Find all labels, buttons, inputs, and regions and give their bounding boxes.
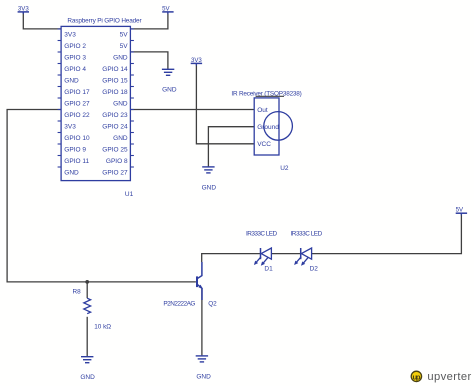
svg-text:GND: GND: [202, 184, 217, 191]
wire net 3V3: power to U2 VCC: [196, 64, 254, 144]
U1 pin GND (left row 13): [58, 167, 79, 177]
svg-text:GPIO 27: GPIO 27: [102, 170, 128, 177]
svg-text:GPIO 10: GPIO 10: [64, 135, 90, 142]
svg-text:5V: 5V: [456, 207, 464, 214]
ground symbol below Q2: [196, 356, 208, 362]
U1 pin GND (right row 7): [113, 98, 134, 108]
svg-text:R8: R8: [73, 289, 82, 296]
power symbol 5V: [162, 5, 173, 14]
wire R8 bottom lead to ground: [86, 317, 88, 357]
U1 pin GPIO 8 (right row 12): [106, 156, 134, 166]
U1 pin GPIO 27 (right row 13): [102, 167, 134, 177]
svg-text:GND: GND: [113, 135, 128, 142]
svg-text:GND: GND: [64, 78, 79, 85]
power symbol 3V3: [18, 5, 30, 14]
svg-text:Q2: Q2: [208, 300, 217, 307]
LED D2 arrowheads: [294, 261, 298, 265]
ground symbol near U2: [202, 167, 214, 173]
U1 pin GND (right row 3): [113, 52, 134, 62]
U1 pin GPIO 9 (left row 11): [58, 144, 87, 154]
svg-text:GND: GND: [64, 170, 79, 177]
svg-text:GPIO 15: GPIO 15: [102, 78, 128, 85]
LED D1 IR333C symbol: [256, 248, 271, 263]
svg-text:GPIO 2: GPIO 2: [64, 43, 86, 50]
junction dot at R8 / base wire: [85, 280, 89, 284]
svg-text:GPIO 3: GPIO 3: [64, 55, 86, 62]
svg-text:GPIO 9: GPIO 9: [64, 147, 86, 154]
wire net BASE: U1 GPIO 22 to Q2 base and R8: [7, 110, 196, 282]
svg-text:3V3: 3V3: [64, 32, 76, 39]
svg-text:Raspberry Pi GPIO Header: Raspberry Pi GPIO Header: [67, 17, 142, 24]
svg-text:GPIO 18: GPIO 18: [102, 89, 128, 96]
svg-text:5V: 5V: [120, 32, 129, 39]
svg-text:GPIO 22: GPIO 22: [64, 112, 90, 119]
upverter logo mark: [411, 371, 421, 381]
svg-text:upverter: upverter: [427, 371, 471, 383]
wire net GND: U1 pin GND row3 to ground: [130, 52, 168, 69]
wire net COLLECTOR: Q2 collector to D1 cathode: [202, 254, 261, 262]
transistor Q2 P2N2222AG symbol: [197, 262, 202, 300]
U1 pin GPIO 17 (left row 6): [58, 87, 90, 97]
power symbol 3V3: [191, 57, 203, 66]
svg-text:3V3: 3V3: [64, 124, 76, 131]
U1 pin GPIO 22 (left row 8): [58, 110, 90, 120]
svg-text:IR Receiver (TSOP38238): IR Receiver (TSOP38238): [231, 91, 301, 98]
U1 pin GPIO 10 (left row 10): [58, 133, 90, 143]
svg-text:GND: GND: [113, 101, 128, 108]
U1 pin GPIO 25 (right row 11): [102, 144, 134, 154]
svg-text:U1: U1: [125, 191, 134, 198]
U1 pin GPIO 23 (right row 8): [102, 110, 134, 120]
svg-text:GPIO 4: GPIO 4: [64, 66, 86, 73]
svg-text:GPIO 23: GPIO 23: [102, 112, 128, 119]
svg-text:3V3: 3V3: [18, 5, 29, 12]
svg-text:VCC: VCC: [257, 141, 271, 148]
svg-text:IR333C LED: IR333C LED: [246, 230, 277, 237]
U1 pin 3V3 (left row 9): [58, 121, 77, 131]
wire net 5V: power to U1 pin 5V: [130, 12, 168, 29]
U1 pin GND (left row 5): [58, 75, 79, 85]
power symbol 5V: [456, 207, 467, 216]
svg-text:GND: GND: [196, 373, 211, 380]
U1 pin GPIO 27 (left row 7): [58, 98, 90, 108]
IC U2 IR Receiver (TSOP38238) body: [231, 91, 301, 155]
svg-text:3V3: 3V3: [191, 57, 202, 64]
svg-text:P2N2222AG: P2N2222AG: [163, 300, 195, 307]
svg-text:GPIO 17: GPIO 17: [64, 89, 90, 96]
U1 pin GPIO 2 (left row 2): [58, 41, 87, 51]
svg-text:up: up: [413, 373, 421, 382]
U1 pin GPIO 14 (right row 4): [102, 64, 134, 74]
U1 pin GPIO 3 (left row 3): [58, 52, 87, 62]
svg-text:Ground: Ground: [257, 124, 279, 131]
svg-text:IR333C LED: IR333C LED: [291, 230, 323, 237]
wire net LED middle: D1 anode to D2 cathode: [271, 253, 300, 255]
U1 pin 5V (right row 2): [120, 41, 134, 51]
svg-text:10 kΩ: 10 kΩ: [94, 323, 111, 330]
svg-text:5V: 5V: [120, 43, 129, 50]
wire R8 top lead: [86, 282, 88, 298]
U1 pin GPIO 11 (left row 12): [58, 156, 90, 166]
LED D1 arrowheads: [254, 261, 258, 265]
svg-text:GPIO 11: GPIO 11: [64, 158, 89, 165]
Q2 emitter arrowhead: [199, 285, 203, 289]
U1 pin GPIO 15 (right row 5): [102, 75, 134, 85]
wire net OUT: U1 GPIO 23 to U2 Out: [130, 109, 254, 111]
U2 lens circle: [264, 112, 293, 141]
svg-text:U2: U2: [280, 165, 289, 172]
U1 pin 3V3 (left row 1): [58, 29, 77, 39]
svg-text:GPIO 27: GPIO 27: [64, 101, 90, 108]
ground symbol below R8: [81, 357, 93, 363]
svg-text:GND: GND: [162, 87, 177, 94]
wire net GND: U2 Ground to ground: [208, 127, 254, 167]
svg-text:GPIO 25: GPIO 25: [102, 147, 128, 154]
svg-text:GPIO 8: GPIO 8: [106, 158, 128, 165]
svg-text:GPIO 24: GPIO 24: [102, 124, 128, 131]
svg-text:D2: D2: [310, 266, 319, 273]
svg-text:GND: GND: [80, 374, 95, 381]
U1 pin GPIO 24 (right row 9): [102, 121, 134, 131]
svg-text:D1: D1: [264, 266, 273, 273]
U1 pin GND (right row 10): [113, 133, 134, 143]
resistor R8 zigzag: [84, 298, 91, 314]
wire net 3V3: power to U1 pin 3V3: [23, 12, 61, 29]
U1 pin GPIO 18 (right row 6): [102, 87, 134, 97]
LED D2 IR333C symbol: [297, 248, 312, 263]
U1 pin GPIO 4 (left row 4): [58, 64, 87, 74]
wire net EMITTER: Q2 emitter to ground: [201, 289, 203, 355]
U1 pin 5V (right row 1): [120, 29, 134, 39]
ground symbol near U1: [162, 69, 174, 75]
svg-text:GND: GND: [113, 55, 128, 62]
svg-text:GPIO 14: GPIO 14: [102, 66, 128, 73]
svg-text:5V: 5V: [162, 5, 170, 12]
wire net 5V right: D2 anode to 5V power: [312, 214, 462, 254]
svg-text:Out: Out: [257, 107, 268, 114]
wire stub above U2 (title underline segment): [256, 95, 284, 97]
IC U1 Raspberry Pi GPIO Header body: [61, 17, 142, 180]
